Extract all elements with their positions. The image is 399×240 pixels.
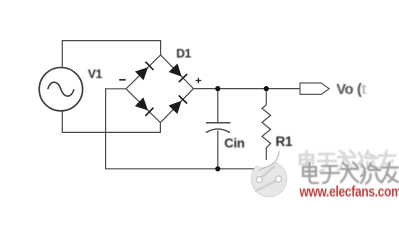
wire DC-: bridge left vertex down to bottom rail <box>106 89 267 169</box>
watermark ghost CJK text <box>300 151 395 172</box>
svg-text:www.elecfans.com: www.elecfans.com <box>299 183 399 199</box>
wire bottom: V1 bottom to bridge bottom vertex <box>62 111 160 132</box>
watermark url <box>299 183 399 199</box>
wire R1 top stub <box>265 89 267 105</box>
capacitor Cin plate bottom (curved) <box>206 129 230 133</box>
wire top: V1 top to bridge top vertex <box>62 41 160 68</box>
watermark url emboss <box>300 184 399 200</box>
svg-text:Vo (t: Vo (t <box>336 82 366 98</box>
watermark logo trace lines <box>256 167 276 191</box>
node junction dot Cin bottom <box>215 166 220 171</box>
label minus at bridge left <box>119 79 125 81</box>
watermark main CJK text <box>303 163 398 184</box>
watermark logo circle <box>251 161 287 197</box>
wire R1 bottom stub (redrawn over leaf) <box>265 148 267 160</box>
label plus at bridge right <box>196 78 202 84</box>
output connector Vo <box>300 83 329 94</box>
watermark logo pad 1 <box>256 177 262 183</box>
resistor R1 zigzag <box>262 105 271 148</box>
capacitor Cin plate top <box>206 122 231 124</box>
svg-text:R1: R1 <box>276 134 294 149</box>
watermark logo leaf outline <box>259 151 280 171</box>
diode bottom-right (anode bottom vertex, cathode right vertex) <box>170 95 188 113</box>
svg-text:V1: V1 <box>88 67 103 81</box>
wire Cin top stub <box>217 89 219 123</box>
AC source V1 sine <box>48 82 74 96</box>
wire Cin bottom stub <box>217 131 219 169</box>
wire DC+ rail: bridge right vertex to Vo <box>193 88 300 90</box>
diode top-left (anode left vertex, cathode top vertex) <box>136 62 154 80</box>
node junction dot R1 top <box>264 86 269 91</box>
bridge diamond D1 <box>126 55 193 123</box>
watermark logo pad 2 <box>276 176 282 182</box>
watermark logo leaf notch (white wipe) <box>257 146 279 166</box>
wire R1 bottom stub <box>265 148 267 169</box>
diode bottom-left (anode left vertex, cathode bottom vertex) <box>136 98 154 116</box>
svg-text:Cin: Cin <box>224 136 245 151</box>
watermark CJK text emboss highlight <box>304 164 399 185</box>
AC source V1 circle <box>39 68 82 111</box>
node junction dot Cin top <box>215 86 220 91</box>
diode top-right (anode top vertex, cathode right vertex) <box>170 64 188 82</box>
svg-text:D1: D1 <box>176 46 191 60</box>
